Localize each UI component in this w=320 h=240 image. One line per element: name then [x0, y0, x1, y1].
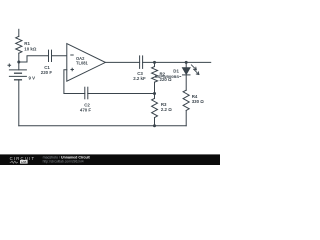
svg-text:R4: R4 — [192, 94, 198, 99]
svg-text:10 kΩ: 10 kΩ — [24, 47, 37, 52]
bottom rail wire — [19, 125, 186, 127]
junction dot bottom rail at R3 — [153, 124, 156, 127]
op-amp plus sign — [71, 68, 74, 71]
wire node A step to C1 row — [19, 56, 49, 62]
battery plus sign — [8, 64, 12, 68]
footer circuit title text — [43, 156, 91, 164]
capacitor C3 — [140, 56, 211, 69]
resistor R4 — [183, 90, 189, 126]
svg-text:330 Ω: 330 Ω — [192, 99, 205, 104]
op-amp U1 triangle — [67, 44, 106, 82]
LED D1 — [183, 62, 199, 90]
footer CircuitLab logo — [10, 156, 36, 164]
LED arrows — [191, 65, 199, 75]
op-amp + input bend wire — [64, 70, 85, 94]
capacitor C1 — [49, 50, 67, 61]
junction dot output row at D1 — [185, 61, 188, 64]
junction dot output row at R2 — [153, 61, 156, 64]
resistor R1 — [16, 29, 22, 62]
capacitor C2 — [85, 87, 155, 99]
svg-text:LAB: LAB — [21, 160, 27, 164]
svg-text:D1: D1 — [173, 68, 179, 73]
svg-text:9 V: 9 V — [29, 75, 36, 80]
svg-text:220 F: 220 F — [41, 70, 53, 75]
op-amp output wire — [105, 61, 139, 63]
svg-text:TL081: TL081 — [76, 61, 89, 66]
battery V1 9V — [9, 62, 26, 126]
svg-text:http://circuitlab.com/c96znr4: http://circuitlab.com/c96znr4 — [43, 159, 84, 163]
op-amp minus sign — [70, 54, 73, 56]
svg-text:470 F: 470 F — [80, 107, 92, 112]
svg-text:2.2 kF: 2.2 kF — [133, 76, 146, 81]
junction dot feedback row at R2/R3 — [153, 92, 156, 95]
svg-text:220 Ω: 220 Ω — [160, 77, 173, 82]
svg-text:2.2 Ω: 2.2 Ω — [161, 107, 172, 112]
footer bar — [0, 154, 220, 165]
resistor R2 — [152, 62, 158, 93]
svg-text:R1: R1 — [24, 41, 30, 46]
schematic text labels — [8, 41, 205, 112]
node A junction dot — [17, 61, 20, 64]
resistor R3 — [152, 94, 158, 126]
